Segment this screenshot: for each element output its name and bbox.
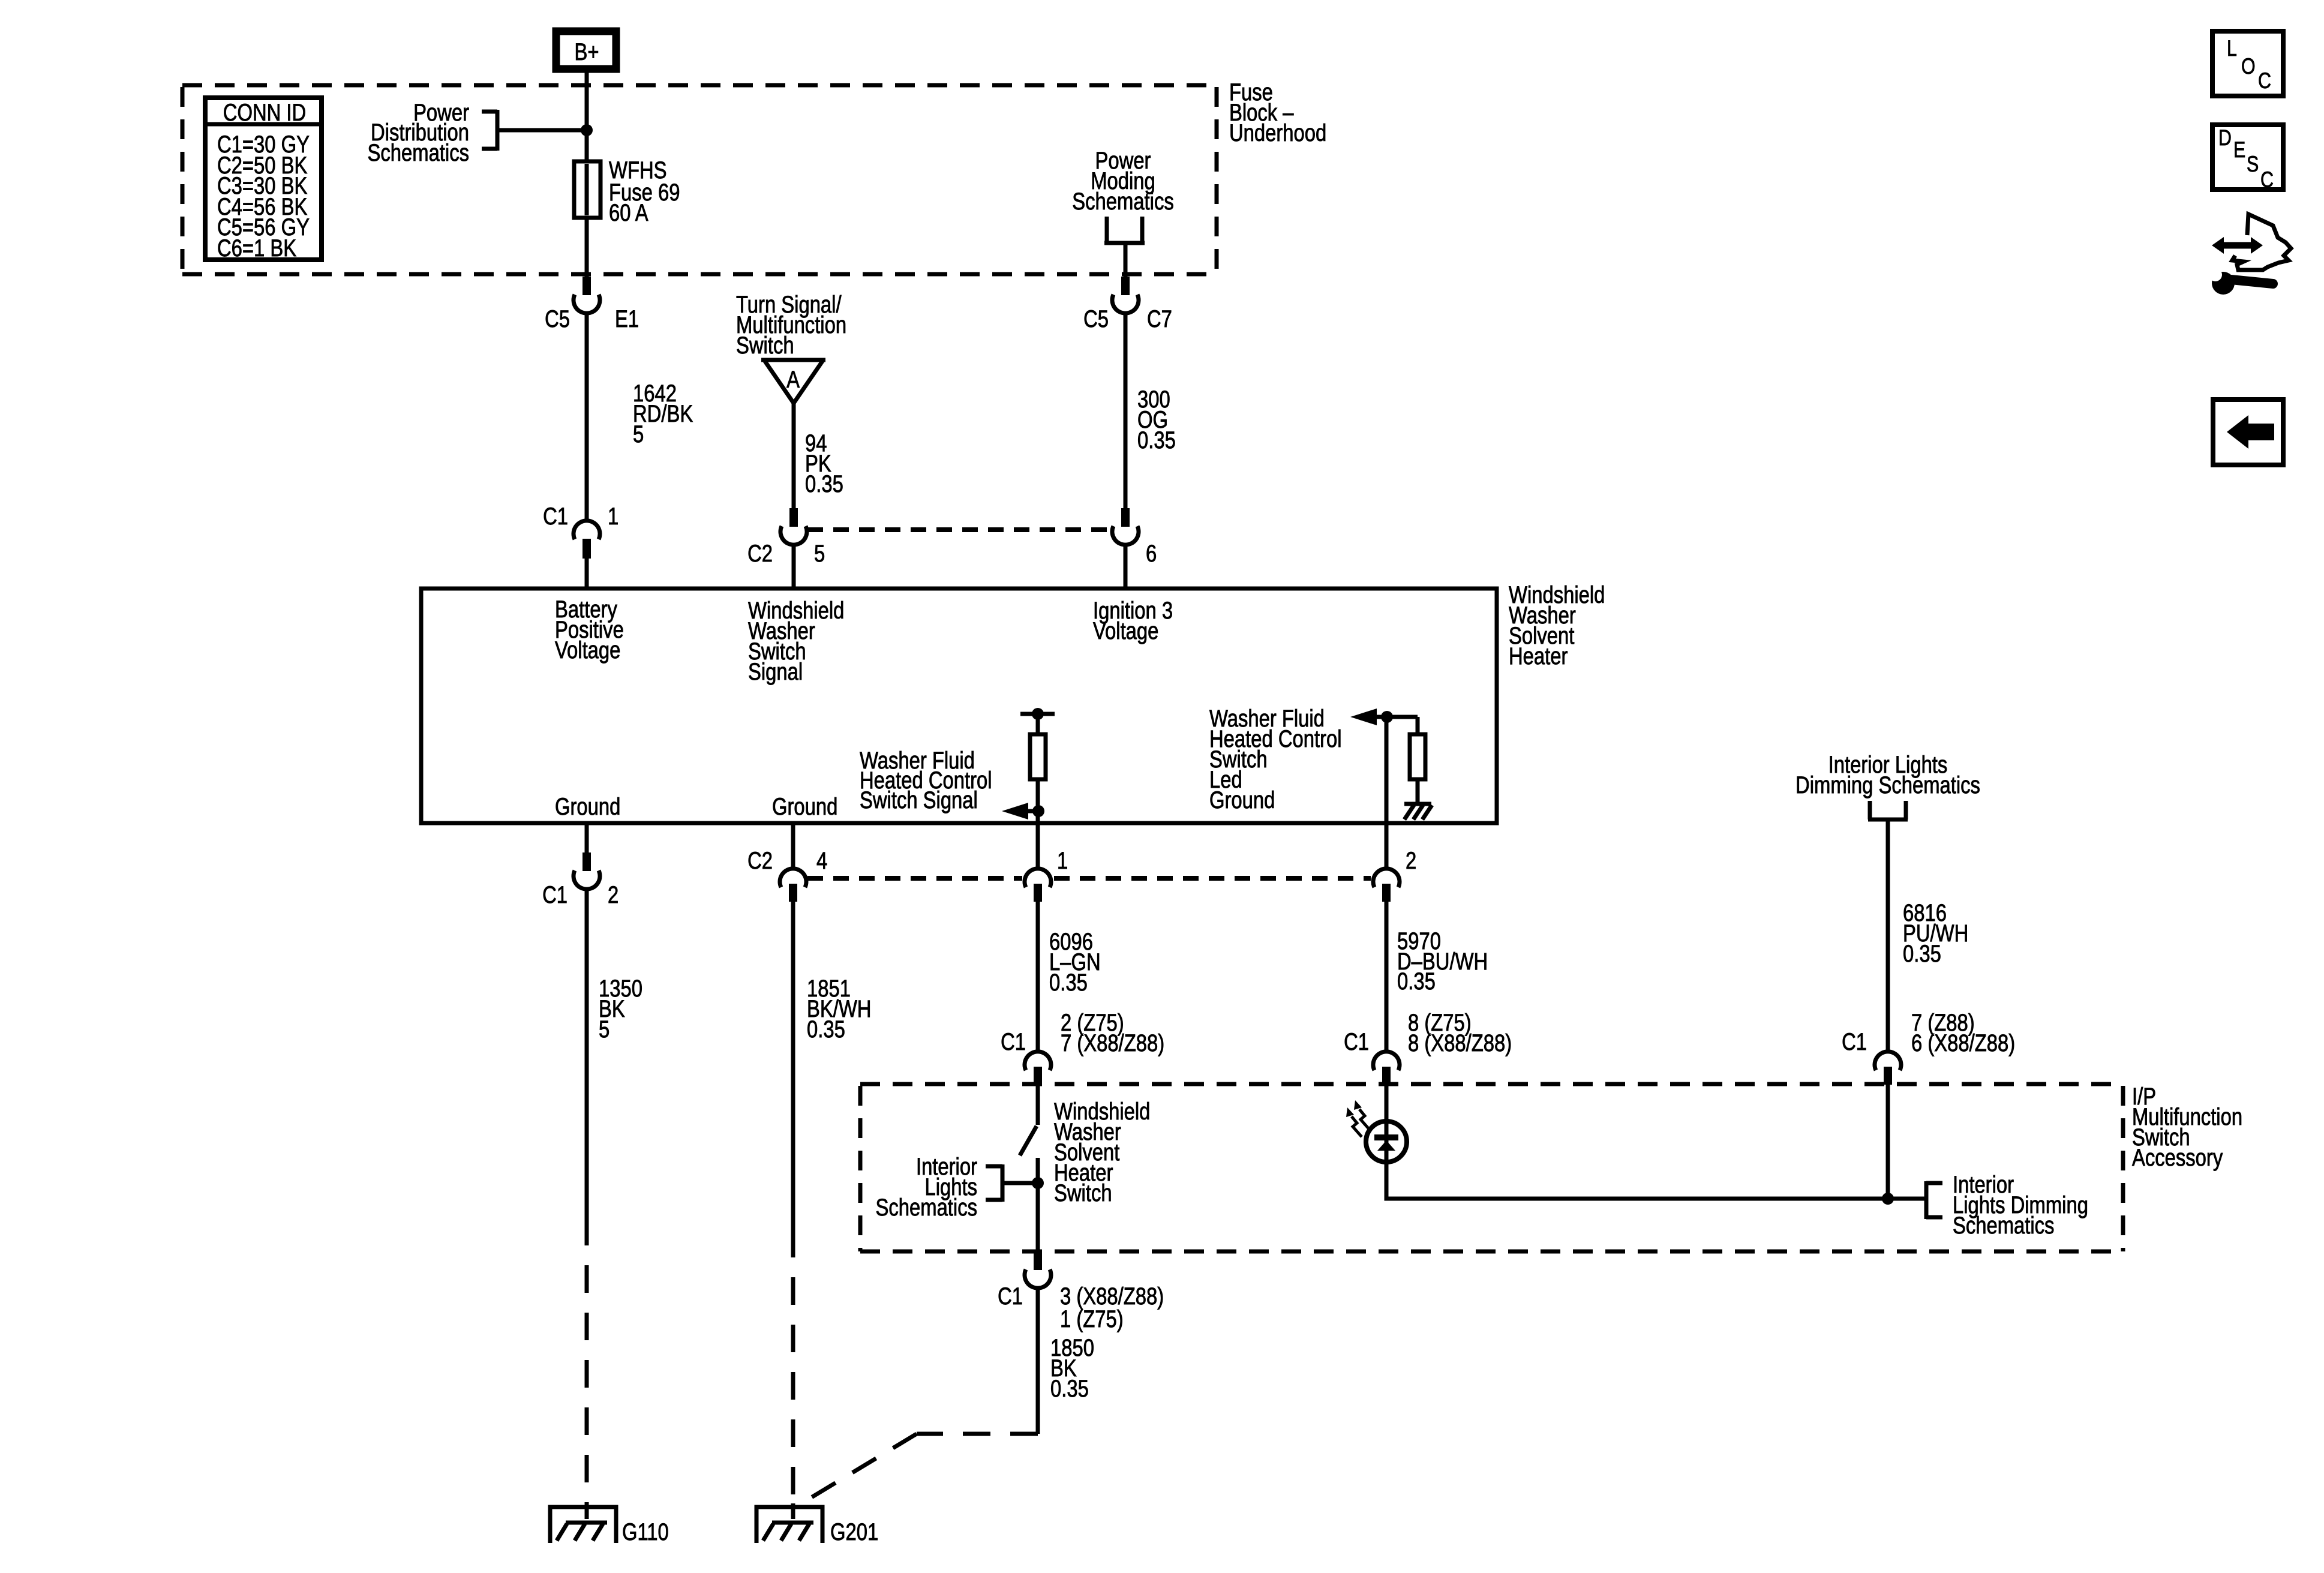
wire 6816 PU/WH 0.35	[1886, 819, 1890, 1051]
bracket to Power Distribution Schematics	[482, 110, 497, 151]
label 2	[1406, 847, 1416, 874]
label C1 / 2	[542, 881, 568, 908]
ground G110	[550, 1503, 616, 1543]
svg-text:1: 1	[608, 503, 618, 530]
svg-text:Switch: Switch	[736, 332, 794, 359]
connector C1 pin 1	[574, 521, 600, 559]
svg-text:C1: C1	[1842, 1028, 1867, 1055]
internal resistor (led ground) with arrow and chassis ground	[1350, 709, 1432, 819]
svg-text:4: 4	[816, 847, 827, 874]
connector C1 (switch signal into I/P switch)	[1025, 1052, 1051, 1085]
svg-text:0.35: 0.35	[1397, 968, 1436, 995]
connector pin 2 (led ground)	[1373, 869, 1400, 902]
wire led to dimming feed	[1386, 1194, 1926, 1199]
svg-text:C2: C2	[747, 847, 773, 874]
svg-text:G201: G201	[830, 1518, 878, 1545]
battery positive terminal B+	[556, 31, 616, 69]
svg-text:0.35: 0.35	[1903, 940, 1941, 967]
label 1850 BK 0.35	[1050, 1334, 1094, 1402]
junction node B+ feed	[581, 124, 593, 136]
connector C1 (dimming feed into I/P switch)	[1875, 1052, 1901, 1085]
label C1	[1842, 1028, 1867, 1055]
label Windshield Washer Solvent Heater Switch	[1054, 1098, 1150, 1206]
dashed harness link row 2	[807, 527, 1112, 532]
wire 1350 BK 5	[585, 889, 589, 1218]
svg-text:6: 6	[1146, 540, 1157, 567]
svg-text:A: A	[786, 366, 800, 393]
svg-text:Switch: Switch	[1054, 1179, 1112, 1206]
svg-text:C1: C1	[998, 1283, 1023, 1310]
pin labels 3 (X88/Z88) 1 (Z75)	[1060, 1283, 1164, 1332]
pin label Windshield Washer Switch Signal	[748, 597, 844, 685]
label Turn Signal / Multifunction Switch	[736, 291, 846, 359]
svg-text:C: C	[2260, 167, 2274, 193]
svg-text:Voltage: Voltage	[555, 637, 620, 664]
label 1851 BK/WH 0.35	[807, 975, 871, 1043]
label Windshield Washer Solvent Heater (module title)	[1509, 581, 1605, 670]
dashed wire 1850 to G201	[795, 1434, 1038, 1507]
svg-text:B+: B+	[574, 38, 599, 65]
wire 300 OG 0.35	[1124, 313, 1128, 508]
svg-text:C1: C1	[1001, 1028, 1026, 1055]
bracket to Interior Lights Schematics	[986, 1164, 1038, 1202]
connector C5 pin C7	[1112, 277, 1139, 313]
label C5 / E1	[545, 305, 570, 332]
svg-text:0.35: 0.35	[1049, 969, 1088, 996]
svg-text:E: E	[2233, 137, 2245, 163]
svg-text:Voltage: Voltage	[1093, 617, 1158, 644]
svg-text:C1: C1	[1344, 1028, 1369, 1055]
svg-text:Ground: Ground	[1209, 786, 1275, 813]
label Washer Fluid Heated Control Switch Led Ground	[1209, 705, 1342, 813]
dashed harness link row 3	[807, 876, 1371, 881]
svg-text:D: D	[2218, 125, 2232, 151]
svg-text:C5: C5	[545, 305, 570, 332]
wire into module battery input	[585, 559, 589, 589]
svg-text:0.35: 0.35	[805, 470, 843, 497]
wire 1642 RD/BK 5	[585, 313, 589, 521]
label Interior Lights Dimming Schematics (in box)	[1953, 1171, 2088, 1239]
icon DESC box	[2212, 125, 2283, 193]
wire B+ feed	[585, 69, 589, 277]
svg-text:Accessory: Accessory	[2132, 1144, 2223, 1171]
label C5 / C7	[1083, 305, 1109, 332]
connector pin 1 (switch signal)	[1025, 869, 1051, 902]
icon back arrow box	[2213, 400, 2283, 465]
label 1350 BK 5	[599, 975, 642, 1043]
label Fuse Block - Underhood	[1229, 79, 1326, 146]
wire into module washer switch input	[792, 545, 796, 589]
connector C1 pin 3 (X88/Z88)	[1025, 1251, 1051, 1288]
wire ignition feed in fuse block	[1124, 243, 1128, 277]
svg-text:Heater: Heater	[1509, 643, 1568, 670]
svg-text:1 (Z75): 1 (Z75)	[1060, 1305, 1124, 1332]
label 1642 RD/BK 5	[633, 380, 693, 448]
dashed wire to G201	[791, 1230, 795, 1507]
bracket from Interior Lights Dimming Schematics	[1868, 801, 1908, 819]
wire 94 PK 0.35	[792, 403, 796, 508]
led light emission arrows	[1346, 1100, 1370, 1137]
svg-text:Switch Signal: Switch Signal	[860, 786, 978, 813]
label 5970 D-BU/WH 0.35	[1397, 927, 1488, 995]
svg-text:CONN ID: CONN ID	[223, 99, 306, 126]
wire 1850 BK 0.35	[1036, 1288, 1040, 1434]
label WFHS Fuse 69 60 A	[609, 157, 680, 226]
svg-text:7 (X88/Z88): 7 (X88/Z88)	[1061, 1029, 1164, 1056]
pin labels 7 (Z88) 6 (X88/Z88)	[1911, 1009, 2015, 1056]
svg-text:0.35: 0.35	[807, 1016, 845, 1043]
svg-text:6 (X88/Z88): 6 (X88/Z88)	[1911, 1029, 2015, 1056]
pin labels 2 (Z75) 7 (X88/Z88)	[1061, 1009, 1164, 1056]
icon adjust/wrench	[2209, 214, 2291, 295]
svg-text:8 (X88/Z88): 8 (X88/Z88)	[1408, 1029, 1512, 1056]
wire 1851 BK/WH 0.35	[791, 902, 795, 1230]
ground G201	[756, 1503, 822, 1543]
label 300 OG 0.35	[1137, 386, 1176, 454]
pin label Ground (left)	[555, 793, 620, 820]
label C1 / 1	[543, 503, 568, 530]
arrow to Washer Fluid Heated Control Switch Signal	[1002, 803, 1044, 819]
fuse block underhood dashed outline	[182, 85, 1217, 274]
label C2 / 5	[747, 540, 773, 567]
wire into module ignition input	[1124, 545, 1128, 589]
connector C2 pin 4	[780, 869, 806, 902]
internal resistor (switch signal pull-up) with top terminal bar	[1020, 708, 1055, 869]
label C1	[998, 1283, 1023, 1310]
svg-text:C: C	[2258, 68, 2271, 94]
label 94 PK 0.35	[805, 430, 843, 497]
svg-text:2: 2	[608, 881, 618, 908]
connector C5 pin E1	[574, 277, 600, 313]
connector C1 pin 2	[574, 852, 600, 889]
wire led control down	[1385, 717, 1389, 869]
svg-text:E1: E1	[615, 305, 639, 332]
svg-text:C2: C2	[747, 540, 773, 567]
svg-text:Underhood: Underhood	[1229, 119, 1326, 146]
off-page triangle A (turn signal/multifunction switch)	[761, 360, 825, 403]
svg-text:Ground: Ground	[772, 793, 837, 820]
svg-text:L: L	[2227, 36, 2237, 61]
module Windshield Washer Solvent Heater box	[421, 589, 1497, 823]
svg-text:O: O	[2241, 54, 2256, 79]
svg-text:2: 2	[1406, 847, 1416, 874]
svg-text:Dimming Schematics: Dimming Schematics	[1795, 772, 1980, 798]
label C2 / 4	[747, 847, 773, 874]
dashed wire to G110	[585, 1218, 589, 1507]
svg-text:0.35: 0.35	[1050, 1375, 1089, 1402]
label C1	[1001, 1028, 1026, 1055]
label Interior Lights Schematics	[876, 1153, 977, 1221]
pin label Ground (middle)	[772, 793, 837, 820]
wire module ground 2	[791, 823, 795, 869]
wire 6096 L-GN 0.35	[1036, 902, 1040, 1051]
svg-text:60 A: 60 A	[609, 199, 648, 226]
bracket to Interior Lights Dimming Schematics	[1926, 1181, 1942, 1219]
svg-text:G110: G110	[622, 1518, 669, 1545]
label Power Moding Schematics	[1072, 147, 1173, 215]
svg-text:C1: C1	[543, 503, 568, 530]
svg-text:0.35: 0.35	[1137, 427, 1176, 454]
icon LOC box	[2212, 31, 2283, 96]
windshield washer solvent heater switch (contact)	[1020, 1085, 1044, 1251]
label 1	[1057, 847, 1068, 874]
I/P multifunction switch accessory dashed outline	[860, 1084, 2123, 1251]
label 6816 PU/WH 0.35	[1903, 899, 1968, 967]
label C1	[1344, 1028, 1369, 1055]
pin label Battery Positive Voltage	[555, 596, 624, 664]
label Washer Fluid Heated Control Switch Signal	[860, 747, 992, 813]
svg-text:Signal: Signal	[748, 658, 803, 685]
wire bracket to B+ feed	[497, 128, 587, 133]
svg-text:C1: C1	[542, 881, 568, 908]
junction node dimming feed	[1882, 1193, 1894, 1205]
svg-text:1: 1	[1057, 847, 1068, 874]
led washer fluid heated control switch indicator	[1366, 1085, 1407, 1197]
svg-text:C7: C7	[1147, 305, 1172, 332]
svg-text:Schematics: Schematics	[1953, 1212, 2054, 1239]
wire dimming feed vertical	[1886, 1085, 1890, 1199]
svg-text:Schematics: Schematics	[876, 1194, 977, 1221]
pin label Ignition 3 Voltage	[1093, 597, 1173, 644]
label Interior Lights Dimming Schematics (top right)	[1795, 751, 1980, 798]
bracket from Power Moding Schematics	[1104, 217, 1145, 243]
connector ID table CONN ID	[205, 98, 322, 262]
svg-text:5: 5	[599, 1016, 609, 1043]
connector pin 6	[1112, 508, 1139, 545]
svg-text:C6=1 BK: C6=1 BK	[217, 235, 296, 262]
svg-text:5: 5	[814, 540, 825, 567]
svg-text:S: S	[2247, 152, 2259, 177]
wire module ground 1	[585, 823, 589, 852]
label 6	[1146, 540, 1157, 567]
label Power Distribution Schematics	[368, 99, 469, 166]
wire 5970 D-BU/WH 0.35	[1385, 902, 1389, 1051]
svg-text:Schematics: Schematics	[1072, 188, 1173, 215]
fuse WFHS Fuse 69 60 A	[574, 161, 600, 218]
svg-text:5: 5	[633, 421, 644, 448]
label I/P Multifunction Switch Accessory	[2132, 1083, 2242, 1171]
svg-text:Schematics: Schematics	[368, 139, 469, 166]
pin labels 8 (Z75) 8 (X88/Z88)	[1408, 1009, 1512, 1056]
svg-text:C5: C5	[1083, 305, 1109, 332]
connector C1 (led ground into I/P switch)	[1373, 1052, 1400, 1085]
connector C2 pin 5	[780, 508, 807, 545]
svg-text:Ground: Ground	[555, 793, 620, 820]
label 6096 L-GN 0.35	[1049, 928, 1101, 996]
